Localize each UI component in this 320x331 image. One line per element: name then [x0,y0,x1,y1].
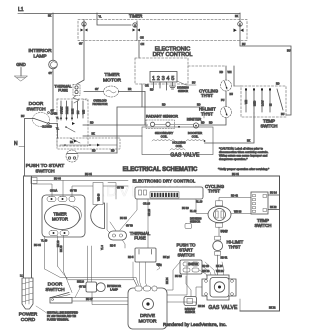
svg-text:PUSH TO START: PUSH TO START [26,163,65,169]
temp switch wires [268,192,280,210]
booster coil [186,131,205,142]
radiant sensor label [146,115,178,119]
svg-text:BK 32: BK 32 [269,307,276,310]
gas valve box [142,127,213,155]
cycling thermostat 2 [208,201,231,227]
svg-text:L1: L1 [20,275,23,278]
svg-text:BR: BR [128,88,132,91]
door switch 2 [50,293,72,304]
wire BK34 riser [166,262,180,290]
svg-text:COIL: COIL [176,144,183,148]
gas valve 2 labels [202,265,224,273]
wire board to cycling [185,198,251,229]
svg-text:GY 50: GY 50 [126,225,133,228]
svg-text:WH: WH [245,100,248,104]
timer cam switch 2 [133,21,144,41]
cycling thermostat [221,80,232,91]
rendered by [163,322,227,327]
interior lamp label [28,48,52,60]
wire door to push start [50,117,60,138]
caution note [218,147,270,172]
connector 1 2 3 4 5 [150,72,177,83]
gas valve 2 plate [202,275,236,300]
svg-text:START: START [60,106,63,114]
svg-text:PU 17: PU 17 [221,230,228,233]
svg-text:TH'ST: TH'ST [208,189,220,194]
svg-text:TIMER: TIMER [129,14,142,19]
svg-text:RL 19: RL 19 [196,201,203,204]
svg-text:WH 24: WH 24 [216,270,224,273]
drive motor [138,299,157,325]
svg-text:BN 24: BN 24 [198,305,205,308]
svg-text:ON: ON [140,37,144,40]
svg-text:MOTOR: MOTOR [52,217,68,222]
svg-text:LAMP: LAMP [33,54,46,60]
svg-text:OR: OR [145,85,149,88]
start switch block [101,245,160,267]
wire timer to door [45,236,64,273]
svg-text:ELECTRONIC DRY CONTROL: ELECTRONIC DRY CONTROL [133,178,196,183]
interior lamp 2 [86,282,105,292]
gas valve label 2 [208,305,238,311]
svg-text:RD 42: RD 42 [231,195,238,198]
timer motor label [103,72,122,84]
svg-text:TIMER: TIMER [104,72,120,78]
svg-text:WH: WH [82,110,85,114]
wire hi-limit to igniter [199,118,226,126]
temp switch label [261,119,278,129]
push to start switch [66,150,78,162]
svg-text:RD 23: RD 23 [202,265,209,268]
svg-text:SWITCH: SWITCH [35,169,55,175]
svg-text:MED: MED [254,100,257,106]
door switch 2 label [45,282,65,294]
wire motor right riser [167,263,196,306]
electronic dry control title 2 [133,178,196,183]
svg-text:HI: HI [270,103,273,106]
drive motor terminals [135,286,157,291]
timer labels [41,190,77,253]
timer terminals top [47,197,75,202]
wire bundle to drive motor [45,246,139,293]
temp switch 2 [251,192,268,214]
svg-text:BU 44: BU 44 [54,178,61,181]
power cord [20,275,33,310]
svg-text:BK: BK [70,141,74,144]
svg-text:BU 15: BU 15 [120,217,127,220]
temp switch box [241,86,286,117]
connector wires [142,81,196,107]
door switch wires right [72,281,128,302]
svg-text:RD: RD [197,104,201,107]
holding coil [170,126,186,150]
push to start switch 2 [180,260,202,274]
svg-text:RD: RD [276,83,280,86]
timer terminals bottom [49,231,69,236]
svg-text:BU: BU [21,115,25,118]
svg-text:YL: YL [56,117,60,120]
wire gas valve left wires [186,276,202,297]
svg-text:BU: BU [242,43,246,46]
svg-text:GY 50: GY 50 [117,187,124,190]
wire board to fuse [107,199,151,248]
wire cam2 to control [139,41,144,59]
door switch label [26,101,46,113]
svg-text:DRIVE: DRIVE [140,313,156,319]
wire temp to gas valve [205,113,255,143]
svg-text:OPEN: OPEN [51,113,58,116]
svg-text:RD: RD [209,122,213,125]
dryness sensor [170,82,190,93]
svg-text:YL 49: YL 49 [41,240,48,243]
electrical schematic title [123,167,198,173]
svg-text:LAMP: LAMP [110,288,118,292]
thermal fuse [54,85,80,96]
wire gas valve bottom rail [240,299,280,311]
svg-text:RL 19: RL 19 [190,210,197,213]
svg-text:YL: YL [56,128,60,131]
svg-text:DOOR: DOOR [48,282,63,288]
svg-text:RD 5: RD 5 [128,256,134,259]
svg-text:RD: RD [111,150,115,153]
svg-text:SENSOR: SENSOR [178,90,188,93]
svg-text:FUSE: FUSE [134,236,146,241]
gas valve 2 body [210,278,229,298]
svg-text:BU: BU [281,113,285,116]
svg-text:BK 32: BK 32 [270,206,277,209]
control board [135,187,203,199]
svg-text:BU 44: BU 44 [232,173,239,176]
svg-text:BK: BK [92,133,96,136]
svg-text:GAS VALVE: GAS VALVE [170,153,200,159]
push to start label 2 [177,243,197,258]
wire lamp drop [52,13,54,60]
svg-text:ON: ON [141,43,145,46]
wire left drop 1 [23,176,25,278]
wire motor RD to radiant sensor [88,122,148,126]
svg-text:RD: RD [92,150,96,153]
timer motor [104,86,119,97]
svg-text:BK tpl: BK tpl [163,256,170,259]
svg-text:SWITCH: SWITCH [255,223,272,228]
svg-text:BK 34: BK 34 [166,277,169,284]
thermal fuse 2 [109,231,127,240]
svg-text:MOTOR: MOTOR [138,319,157,325]
svg-text:RD: RD [150,89,154,92]
svg-text:DOOR: DOOR [29,101,44,107]
svg-text:TH'ST: TH'ST [201,112,213,117]
svg-text:DRY CONTROL: DRY CONTROL [153,52,193,58]
svg-text:BK 40: BK 40 [60,245,63,252]
svg-text:RUN: RUN [71,109,74,114]
wire hi-limit to gas valve 2 [199,255,228,279]
svg-text:CENTER: CENTER [188,263,198,266]
svg-text:BU 19: BU 19 [182,207,189,210]
wire BU right rail [240,43,291,115]
svg-text:TH'ST: TH'ST [229,245,241,250]
wire timer motor [84,88,145,125]
svg-text:COIL: COIL [161,135,168,139]
wire YL drop [97,13,131,25]
wire lamp to door switch [49,69,54,112]
svg-text:SWITCH: SWITCH [45,287,65,293]
hi-limit label 2 [227,240,244,250]
push to start label [26,163,65,175]
motor contacts [65,122,88,143]
console shape [91,183,125,229]
electronic dry control title [153,47,193,59]
push to start contact box [57,138,120,149]
wire left drop 2 [32,176,42,278]
watermark [94,183,206,200]
timer motor body [45,205,82,230]
svg-text:BK: BK [247,140,251,143]
radiant sensor 2 [184,297,205,315]
wire into cycling [226,66,241,86]
wire cycling to hi-limit [221,91,226,107]
wire push start to gas valve [78,150,117,154]
gas valve label [170,153,200,159]
svg-text:RD: RD [220,71,224,74]
svg-text:N: N [14,141,18,147]
svg-text:BU 18: BU 18 [175,275,182,278]
svg-text:WH: WH [228,71,232,74]
svg-text:BK/LG: BK/LG [77,281,84,284]
svg-text:SENSOR: SENSOR [185,311,195,314]
wire N bottom rail [25,173,280,190]
svg-text:RD: RD [201,122,205,125]
interior lamp 2 label [107,284,121,292]
svg-text:PLATED TERMINAL: PLATED TERMINAL [47,319,70,322]
svg-text:OR 16: OR 16 [148,208,151,216]
timer cam switch 3 [234,13,244,43]
wire right rail 2 [279,190,281,311]
wire igniter loop [117,104,204,154]
svg-text:CORD: CORD [21,317,36,323]
svg-text:WH 38: WH 38 [234,211,242,214]
svg-text:BU: BU [77,110,80,114]
svg-text:WH 43: WH 43 [98,193,101,201]
svg-text:GY: GY [49,72,53,75]
svg-text:LOW: LOW [262,100,265,106]
svg-text:BK 34: BK 34 [216,265,223,268]
svg-text:GY 53: GY 53 [70,190,77,193]
svg-text:BU 44: BU 44 [34,244,41,247]
svg-text:SWITCH: SWITCH [178,253,195,258]
svg-text:RD 5: RD 5 [110,245,116,248]
svg-text:SWITCH: SWITCH [261,124,278,129]
svg-text:MOTOR: MOTOR [103,78,122,84]
svg-text:*Verify proper operation after: *Verify proper operation after servicing… [218,167,270,171]
svg-text:OH 1A: OH 1A [50,190,58,193]
ground GND [15,62,28,81]
svg-text:GY: GY [79,43,83,46]
control board connector [150,192,179,198]
svg-text:RD: RD [162,104,166,107]
svg-text:OR 16: OR 16 [143,203,151,206]
hi-limit label [199,107,216,117]
svg-text:POWER: POWER [19,312,38,318]
svg-text:RD 51: RD 51 [221,257,228,260]
motor windings [60,101,85,120]
temp switch contacts [245,83,285,117]
timer box [78,14,247,41]
svg-text:YL 9: YL 9 [101,245,104,250]
svg-text:INTERIOR: INTERIOR [28,48,52,54]
svg-text:WH 29: WH 29 [202,270,210,273]
interior lamp [49,60,58,69]
svg-text:GY: GY [95,88,99,91]
svg-text:PROTECTOR: PROTECTOR [93,103,108,106]
svg-text:BK 40: BK 40 [57,240,60,247]
hi-limit thermostat 2 [213,236,223,255]
svg-text:BU: BU [287,50,291,53]
node N [14,119,25,177]
hi-limit thermostat [221,107,232,118]
board labels [143,201,203,211]
timer cam switch 1 [79,20,88,46]
timer block [42,195,85,237]
svg-text:DRIVE: DRIVE [66,106,69,114]
svg-text:GAS VALVE: GAS VALVE [208,305,238,311]
svg-text:BU 14: BU 14 [270,192,277,195]
svg-text:COIL: COIL [192,135,199,139]
start switch wires [133,256,170,286]
svg-text:SENSOR: SENSOR [190,221,200,224]
wire motor BK to gas valve [88,133,142,137]
svg-text:BU: BU [230,93,234,96]
svg-text:dangerous operation.*: dangerous operation.* [219,157,248,161]
svg-text:BU 47: BU 47 [86,298,93,301]
svg-text:PU: PU [221,99,225,102]
svg-text:12345: 12345 [152,76,176,82]
svg-text:IGNITER: IGNITER [187,118,202,122]
thermal fuse label 2 [110,231,151,248]
drive motor block [128,288,167,329]
svg-text:BK: BK [235,15,239,18]
wire L1 bus [24,14,240,18]
svg-text:TH'ST: TH'ST [201,93,213,98]
node L1 [18,7,24,14]
power cord label [19,312,38,324]
svg-text:SWITCH: SWITCH [26,107,46,113]
svg-text:FUSE: FUSE [58,89,68,93]
overload protector [73,96,108,106]
svg-text:Rendered by LeadVenture, Inc.: Rendered by LeadVenture, Inc. [163,322,227,327]
wire lamp 2 [86,292,128,305]
temp switch label 2 [255,218,272,228]
secondary coil [152,131,175,141]
svg-text:RADIANT SENSOR: RADIANT SENSOR [146,115,178,119]
electronic dry control box [135,58,188,84]
wire cycling to hi-limit 2 [219,227,228,236]
igniter [170,118,202,129]
svg-text:RD: RD [90,122,94,125]
radiant sensor [146,120,175,129]
cycling labels 2 [205,184,242,234]
svg-text:BK: BK [48,15,52,18]
svg-text:ELECTRICAL SCHEMATIC: ELECTRICAL SCHEMATIC [123,167,198,173]
wire cam1 to thermal fuse [77,41,84,85]
neutral note [36,306,78,322]
wire timer top feeds [33,181,128,197]
svg-text:YL: YL [99,16,103,19]
door switch [21,110,58,129]
wire control to thermostats [188,66,232,74]
svg-text:BU 44: BU 44 [85,173,92,176]
cycling th'st label [199,89,233,99]
svg-text:GN: GN [158,264,162,267]
wire BU44 branch [31,178,128,184]
motor winding box [57,99,88,146]
svg-text:GND: GND [16,62,26,67]
svg-text:L1: L1 [18,7,24,13]
svg-text:BU: BU [192,82,196,85]
svg-text:CLOSED: CLOSED [42,126,52,129]
